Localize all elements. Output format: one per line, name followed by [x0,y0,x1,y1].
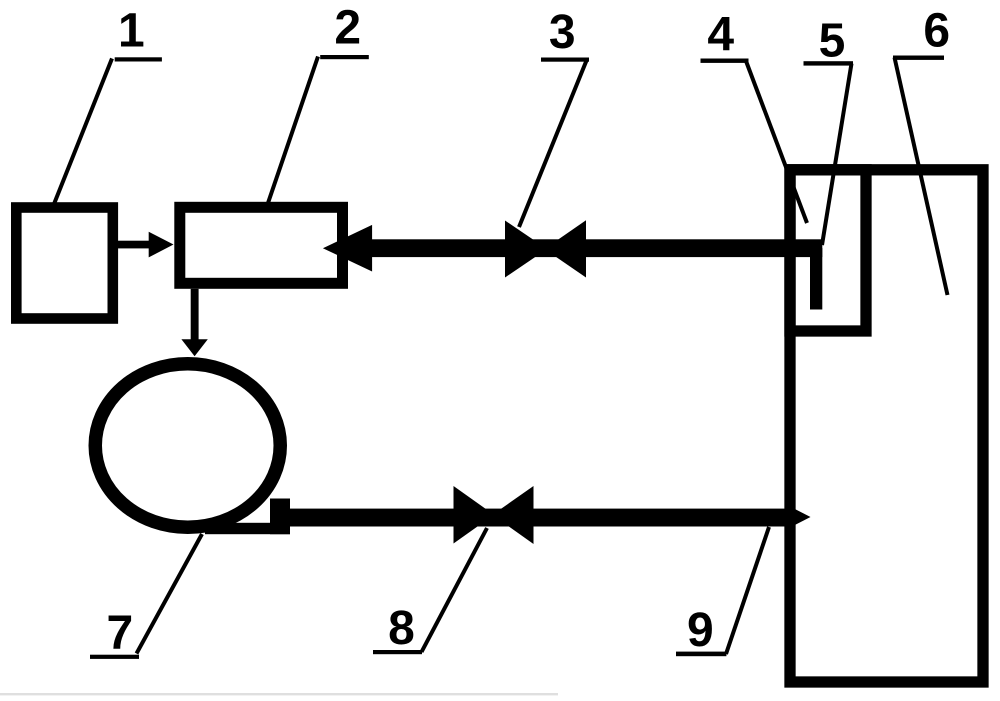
underline of label 7 [90,655,139,659]
leader line 1 [54,59,112,205]
thick pipe from tank to box 2 (upper pipe) [372,239,822,257]
tank 6 (outer rectangle) [790,170,983,682]
leader line 7 [137,534,203,654]
underline of label 1 [115,57,162,61]
faint scan line at bottom [0,693,558,695]
foot serif of digit 1 [121,42,141,46]
svg-text:6: 6 [923,5,950,58]
underline of label 4 [701,59,749,63]
arrow from box 1 to box 2 [118,241,151,249]
underline of label 9 [676,652,726,657]
leader line 9 [726,527,769,654]
svg-text:4: 4 [707,9,734,62]
leader line 8 [422,528,488,652]
tube 5 (inner dip tube) [810,248,822,310]
leader line 4 [746,61,807,223]
box 1 (component 1) [16,208,113,319]
underline of label 8 [373,650,422,654]
svg-text:7: 7 [106,607,133,660]
arrowhead into tank left wall [788,506,811,529]
thick lower pipe from pump to tank [280,509,789,527]
arrowhead into box 2 left [149,232,174,258]
svg-text:3: 3 [549,6,576,59]
svg-text:1: 1 [118,5,145,58]
svg-text:2: 2 [334,2,361,55]
valve 3 right triangle [545,220,587,277]
underline of label 5 [804,61,854,65]
svg-text:5: 5 [819,15,846,68]
vertical line from box 2 down to pump [191,289,199,342]
pump outlet nub [270,499,290,535]
valve 3 left triangle [505,221,547,278]
leader line 6 [895,58,948,296]
box 2 (component 2) [180,207,343,283]
underline of label 3 [541,58,589,62]
svg-text:8: 8 [388,602,415,655]
svg-text:9: 9 [687,604,714,657]
valve 8 left triangle [454,486,495,544]
leader line 2 [268,57,318,204]
underline of label 2 [320,55,369,59]
leader line 3 [519,61,587,228]
big arrowhead into box 2 right [323,225,372,272]
inner box 4 (hanging from tank top) [790,170,866,331]
pump 7 (circle) [95,364,280,528]
pump tail (flat bottom of Q) [205,523,290,534]
underline of label 6 [893,56,944,60]
valve 8 right triangle [493,486,534,544]
arrowhead into pump top [181,339,207,356]
leader line 5 [822,64,852,246]
